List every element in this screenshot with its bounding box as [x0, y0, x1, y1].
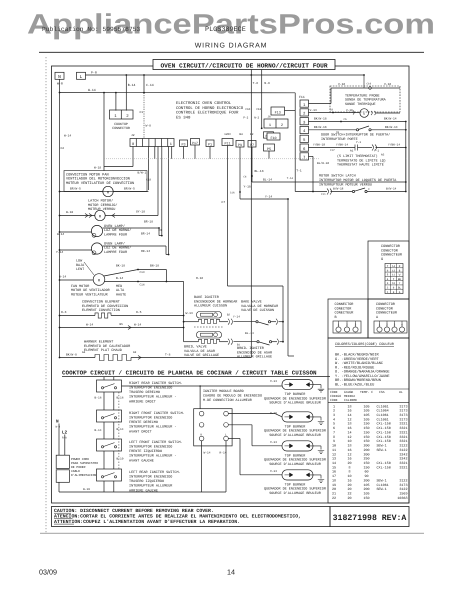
switch linkage dashed: [118, 392, 120, 469]
wire BL-18 / BL-14: [251, 147, 253, 182]
svg-text:P17: P17: [192, 141, 198, 145]
svg-text:200: 200: [363, 448, 369, 453]
svg-text:Y-1: Y-1: [356, 141, 361, 144]
svg-text:B5: B5: [120, 323, 124, 326]
svg-text:C11: C11: [321, 193, 326, 196]
svg-text:1: 1: [333, 404, 335, 409]
wire T-8: [250, 70, 252, 358]
terminal L: [77, 72, 86, 79]
svg-text:105: 105: [363, 404, 369, 409]
svg-text:3122: 3122: [399, 487, 407, 492]
svg-text:3122: 3122: [399, 444, 407, 449]
high limit thermostat row: [309, 147, 356, 149]
svg-text:C14: C14: [140, 283, 145, 286]
connector P1: [206, 140, 214, 147]
svg-text:CXL-150: CXL-150: [377, 461, 391, 466]
svg-text:14: 14: [347, 413, 351, 418]
svg-text:14: 14: [347, 430, 351, 435]
svg-text:C10: C10: [367, 83, 372, 86]
svg-text:BL-14: BL-14: [263, 179, 272, 182]
svg-text:A1: A1: [350, 150, 354, 153]
svg-text:1: 1: [269, 123, 271, 128]
module ground wires: [201, 441, 203, 492]
connector J2 strip: [130, 139, 174, 147]
svg-text:SEW-1: SEW-1: [377, 478, 387, 483]
right front igniter switch: [97, 410, 122, 422]
connector F11 pin 2: [300, 109, 309, 116]
svg-text:3: 3: [333, 413, 335, 418]
connector B pins: [333, 321, 361, 333]
svg-text:C18: C18: [146, 179, 151, 182]
svg-text:P-8: P-8: [91, 71, 97, 75]
svg-text:C7: C7: [221, 201, 225, 204]
svg-text:20: 20: [347, 496, 351, 501]
caution box: [52, 507, 331, 527]
convection element: [59, 315, 61, 317]
svg-text:10368: 10368: [397, 496, 407, 501]
svg-text:W-14: W-14: [57, 233, 64, 236]
svg-text:Y-14: Y-14: [56, 251, 63, 254]
svg-text:A4: A4: [82, 351, 86, 354]
connector F11 pin 3: [300, 118, 309, 125]
svg-text:150: 150: [363, 496, 369, 501]
svg-text:LATCH MOTOR/MOTOR CERROJO/MOTE: LATCH MOTOR/MOTOR CERROJO/MOTEUR VERROU: [88, 199, 117, 213]
svg-text:GY-18: GY-18: [136, 211, 145, 214]
svg-text:16: 16: [347, 457, 351, 462]
wire W-14 horizontal / EOC bottom: [60, 92, 296, 94]
right bus lower: [405, 148, 407, 192]
svg-text:C17: C17: [330, 149, 335, 152]
igniter module board box: [194, 409, 232, 446]
svg-text:W-8: W-8: [146, 125, 152, 128]
svg-text:V-14: V-14: [310, 109, 317, 112]
svg-text:3122: 3122: [399, 448, 407, 453]
motor switch latch wires: [309, 155, 314, 157]
svg-text:3321: 3321: [399, 435, 407, 440]
module input wire from burner feed: [199, 386, 201, 409]
broil igniter: [197, 332, 222, 339]
switch column wires: [103, 392, 105, 410]
svg-text:V-18: V-18: [338, 83, 345, 86]
svg-text:3321: 3321: [399, 422, 407, 427]
svg-text:PLGS389ECE: PLGS389ECE: [205, 26, 246, 34]
svg-text:200: 200: [363, 452, 369, 457]
svg-text:3321: 3321: [399, 439, 407, 444]
svg-text:B-10: B-10: [117, 458, 124, 461]
svg-text:12: 12: [347, 417, 351, 422]
svg-text:15: 15: [332, 465, 336, 470]
svg-text:150: 150: [363, 439, 369, 444]
svg-text:3321: 3321: [399, 465, 407, 470]
svg-text:Y/BK-14: Y/BK-14: [336, 142, 348, 146]
right bus BK/W-14: [405, 122, 407, 159]
svg-text:W-18: W-18: [94, 166, 101, 169]
svg-text:W-14: W-14: [204, 452, 211, 455]
connector A pins: [374, 321, 407, 333]
svg-text:t: t: [363, 112, 365, 117]
svg-text:J8: J8: [268, 116, 272, 119]
svg-text:3122: 3122: [399, 478, 407, 483]
svg-text:Publication No: 5995578753: Publication No: 5995578753: [42, 26, 140, 33]
svg-text:L: L: [80, 75, 83, 80]
svg-text:SEW-1: SEW-1: [377, 448, 387, 453]
wire color code panel: [328, 338, 409, 503]
svg-text:C9: C9: [330, 109, 334, 112]
svg-text:RD-14: RD-14: [141, 250, 150, 253]
svg-text:B/W-1: B/W-1: [138, 171, 147, 175]
connector G pin table: [385, 264, 403, 294]
svg-text:6: 6: [333, 426, 335, 431]
right feed vertical wire: [287, 199, 289, 356]
svg-text:V-18: V-18: [384, 83, 391, 86]
svg-text:3173: 3173: [399, 483, 407, 488]
convection fan box: [64, 171, 147, 192]
svg-text:120V: 120V: [224, 133, 231, 136]
top burner 1 spark electrode: [310, 385, 322, 389]
svg-text:150: 150: [363, 430, 369, 435]
svg-text:Y-18: Y-18: [244, 186, 251, 189]
bus right end drop: [405, 159, 407, 192]
wire V-18 probe top: [309, 103, 332, 105]
svg-text:105: 105: [363, 413, 369, 418]
svg-text:F11: F11: [299, 95, 305, 99]
connector P3: [180, 140, 188, 147]
connector F11 pin 6: [300, 144, 309, 151]
svg-text:150: 150: [363, 426, 369, 431]
svg-text:3321: 3321: [399, 430, 407, 435]
svg-text:3321: 3321: [399, 461, 407, 466]
connector F13: [271, 107, 285, 115]
svg-text:M: M: [107, 190, 109, 195]
burner 1 supply wire: [122, 385, 283, 387]
neutral bus wire W: [59, 79, 61, 357]
svg-text:COOKTOP CIRCUIT / CIRCUITO DE: COOKTOP CIRCUIT / CIRCUITO DE PLANCHA DE…: [62, 370, 317, 377]
svg-text:R-14: R-14: [220, 452, 227, 455]
svg-text:2: 2: [333, 409, 335, 414]
svg-text:OVEN CIRCUIT//CIRCUITO DE HORN: OVEN CIRCUIT//CIRCUITO DE HORNO//CIRCUIT…: [160, 62, 327, 69]
svg-text:3321: 3321: [399, 426, 407, 431]
svg-text:#-23: #-23: [270, 380, 277, 383]
svg-text:150: 150: [363, 461, 369, 466]
svg-text:CXL-150: CXL-150: [377, 426, 391, 431]
module output wires: [228, 413, 275, 415]
connector F11 pin 4: [300, 126, 309, 133]
svg-text:CXL-150: CXL-150: [377, 422, 391, 427]
wire C-14 to EOC: [143, 75, 145, 94]
svg-text:B-14: B-14: [116, 277, 123, 280]
svg-text:B4: B4: [239, 133, 243, 136]
svg-text:11: 11: [332, 448, 336, 453]
svg-text:7: 7: [333, 430, 335, 435]
svg-text:1: 1: [170, 142, 172, 147]
svg-text:3173: 3173: [399, 409, 407, 414]
svg-text:18: 18: [347, 404, 351, 409]
svg-text:C-14: C-14: [146, 83, 154, 87]
svg-text:CL1061: CL1061: [377, 413, 389, 418]
svg-text:W-14: W-14: [64, 135, 71, 138]
svg-text:C16: C16: [230, 192, 235, 195]
svg-text:18: 18: [347, 444, 351, 449]
cooktop ground bus: [58, 482, 60, 492]
svg-text:3242: 3242: [399, 452, 407, 457]
svg-text:8: 8: [348, 470, 350, 475]
connector B box: [328, 299, 368, 338]
svg-text:CODE: CODE: [330, 398, 338, 402]
svg-text:B-16: B-16: [95, 397, 102, 400]
bake igniter: [197, 312, 222, 319]
svg-text:20: 20: [347, 461, 351, 466]
svg-text:CL1061: CL1061: [377, 483, 389, 488]
svg-text:Y-14: Y-14: [233, 316, 240, 319]
svg-text:C13: C13: [140, 271, 145, 274]
header rule: [39, 51, 424, 53]
svg-text:BL-14: BL-14: [245, 332, 254, 335]
wire BR-14 up to EOC: [159, 235, 162, 237]
svg-text:W-14: W-14: [186, 312, 193, 315]
motor switch latch contacts: [295, 191, 327, 193]
part number box: [330, 507, 409, 527]
svg-text:CXL-150: CXL-150: [377, 465, 391, 470]
wire P5 drop: [268, 151, 270, 159]
svg-text:10: 10: [347, 474, 351, 479]
svg-text:250: 250: [363, 457, 369, 462]
svg-text:12: 12: [332, 452, 336, 457]
svg-text:C4: C4: [243, 176, 247, 179]
warmer element: [59, 357, 61, 359]
svg-text:N-8: N-8: [264, 82, 270, 85]
svg-text:13: 13: [332, 457, 336, 462]
connector F10: [267, 133, 280, 140]
connector A box: [368, 299, 409, 338]
svg-text:AppliancePartsPros.com: AppliancePartsPros.com: [27, 9, 435, 40]
svg-text:16: 16: [347, 409, 351, 414]
svg-text:B2: B2: [227, 313, 231, 316]
svg-text:10: 10: [332, 444, 336, 449]
svg-text:318271998 REV:A: 318271998 REV:A: [333, 514, 407, 523]
svg-text:C2: C2: [61, 147, 65, 150]
fan motor speed taps: [104, 270, 138, 277]
top burner 4 spark electrode: [310, 475, 322, 479]
right rear igniter switch: [97, 380, 122, 392]
svg-text:M: M: [98, 278, 100, 283]
svg-text:W-14: W-14: [86, 324, 93, 327]
svg-text:105: 105: [363, 409, 369, 414]
svg-text:18: 18: [332, 478, 336, 483]
cooktop connector plug: [110, 110, 134, 119]
top burner 2 spark electrode: [310, 417, 322, 421]
svg-text:P-2: P-2: [243, 117, 248, 120]
svg-text:C10: C10: [245, 108, 250, 111]
wire P-8 from L: [86, 74, 365, 76]
svg-text:14: 14: [332, 461, 336, 466]
svg-text:1569: 1569: [399, 492, 407, 497]
svg-text:A2: A2: [133, 351, 137, 354]
connector G box: [368, 241, 409, 299]
svg-text:10: 10: [347, 439, 351, 444]
connector P17: [191, 139, 200, 146]
wire V-14 probe bottom / probe sensor: [309, 112, 360, 114]
svg-text:UL: UL: [399, 390, 403, 394]
page bottom edge line: [40, 532, 424, 534]
svg-text:CL1061: CL1061: [377, 404, 389, 409]
terminal N: [55, 72, 64, 79]
wire BK/W-18 row: [309, 121, 406, 123]
horizontal bus wire below EOC: [104, 158, 319, 160]
igniter feed wire: [183, 282, 185, 342]
svg-text:BK/W-14: BK/W-14: [385, 125, 398, 129]
svg-text:200: 200: [363, 478, 369, 483]
svg-text:COOKTOPCONNECTOR: COOKTOPCONNECTOR: [112, 122, 130, 130]
svg-text:16: 16: [347, 426, 351, 431]
svg-text:3242: 3242: [399, 457, 407, 462]
diagram border frame: [52, 66, 410, 503]
svg-text:TEMP. C: TEMP. C: [360, 390, 373, 394]
svg-text:22: 22: [347, 492, 351, 497]
svg-text:BL/R-18: BL/R-18: [317, 161, 329, 165]
svg-text:M: M: [99, 214, 101, 219]
svg-text:BK/W-14: BK/W-14: [384, 117, 397, 121]
svg-text:18: 18: [347, 422, 351, 427]
svg-text:W-14: W-14: [134, 324, 141, 327]
svg-text:4: 4: [333, 417, 335, 422]
svg-text:CL1061: CL1061: [377, 417, 389, 422]
bake valve switch: [234, 321, 256, 323]
svg-text:B2: B2: [250, 133, 254, 136]
svg-text:T-1: T-1: [296, 170, 302, 173]
fan motor: [59, 279, 61, 281]
door switch row: [309, 129, 357, 131]
wire gauge table header: [328, 388, 409, 390]
svg-text:#-23: #-23: [270, 441, 277, 444]
wire N-8: [261, 70, 263, 129]
oven circuit title box: [153, 60, 335, 70]
top burner 3 spark electrode: [310, 446, 322, 450]
svg-text:105: 105: [363, 492, 369, 497]
svg-text:BR-14: BR-14: [141, 232, 150, 235]
svg-text:5: 5: [333, 422, 335, 427]
svg-text:150: 150: [363, 435, 369, 440]
svg-text:200: 200: [363, 444, 369, 449]
wire B-14 to cooktop connector: [125, 75, 127, 111]
svg-text:CXL-150: CXL-150: [377, 430, 391, 435]
svg-text:W-8: W-8: [56, 425, 61, 428]
svg-text:16: 16: [332, 470, 336, 475]
svg-text:22: 22: [332, 496, 336, 501]
svg-text:F13: F13: [275, 111, 281, 116]
svg-text:N: N: [56, 420, 59, 425]
svg-text:150: 150: [363, 465, 369, 470]
svg-text:105: 105: [363, 417, 369, 422]
svg-text:W-10: W-10: [83, 488, 90, 491]
svg-text:N-2: N-2: [254, 117, 259, 120]
svg-text:150: 150: [363, 422, 369, 427]
temperature probe dashed box: [330, 86, 400, 112]
svg-text:WIRING DIAGRAM: WIRING DIAGRAM: [195, 43, 268, 50]
svg-text:B/W-14: B/W-14: [386, 186, 397, 190]
svg-text:9: 9: [333, 439, 335, 444]
svg-text:#-20: #-20: [270, 412, 277, 415]
wire drop W-18: [103, 93, 105, 171]
P connector drop wires: [183, 147, 185, 159]
connector F11 pin 1: [300, 100, 309, 107]
svg-text:C1: C1: [140, 111, 144, 114]
svg-text:O-8: O-8: [61, 311, 67, 314]
svg-text:12: 12: [347, 435, 351, 440]
J2 pin wires down: [132, 147, 134, 167]
svg-text:8: 8: [132, 142, 134, 147]
power cord block 2: [56, 470, 69, 483]
svg-text:CALIBRE: CALIBRE: [344, 398, 357, 402]
svg-text:20: 20: [347, 483, 351, 488]
svg-text:B-14: B-14: [117, 428, 124, 431]
svg-text:B-14: B-14: [128, 83, 136, 87]
connector F11 pin 7: [300, 153, 309, 160]
wire F13 to EOC: [285, 110, 296, 112]
svg-text:3173: 3173: [399, 417, 407, 422]
svg-text:12: 12: [347, 452, 351, 457]
svg-text:3173: 3173: [399, 404, 407, 409]
svg-text:Y-14: Y-14: [265, 196, 272, 199]
connector P10: [264, 132, 274, 138]
svg-text:BR/W-5: BR/W-5: [124, 187, 135, 191]
connector P5: [264, 144, 275, 151]
svg-text:BK-18: BK-18: [116, 265, 125, 268]
svg-text:Y-1: Y-1: [374, 150, 379, 153]
svg-text:A3: A3: [381, 154, 385, 157]
svg-text:T-8: T-8: [253, 82, 259, 85]
svg-text:R-16: R-16: [196, 277, 203, 280]
svg-text:W-8: W-8: [57, 82, 63, 86]
svg-text:CXL-150: CXL-150: [377, 435, 391, 440]
svg-text:B-16: B-16: [117, 397, 124, 400]
svg-text:8: 8: [348, 465, 350, 470]
svg-text:2: 2: [281, 123, 283, 128]
svg-text:CSA: CSA: [379, 390, 385, 394]
svg-text:60: 60: [364, 470, 368, 475]
right bus from EOC: [294, 93, 296, 192]
svg-text:17: 17: [332, 474, 336, 479]
svg-text:F10: F10: [270, 136, 276, 141]
svg-text:BK/W-18: BK/W-18: [314, 117, 327, 121]
oven lamp 2: [59, 249, 61, 251]
svg-text:Y/BK-14: Y/BK-14: [388, 142, 400, 146]
svg-text:W-10: W-10: [66, 211, 73, 214]
dashed shield bake igniter: [194, 326, 224, 328]
svg-text:W-14: W-14: [59, 276, 66, 279]
wire W-14 mid row: [59, 327, 61, 329]
svg-text:20: 20: [332, 487, 336, 492]
svg-text:90: 90: [364, 474, 368, 479]
latch motor: [59, 215, 61, 217]
svg-text:CL1064: CL1064: [377, 409, 389, 414]
svg-text:19: 19: [332, 483, 336, 488]
svg-text:105: 105: [363, 483, 369, 488]
svg-text:8: 8: [333, 435, 335, 440]
svg-text:C12: C12: [256, 108, 261, 111]
convection fan motor: [59, 191, 61, 193]
left front igniter switch: [97, 439, 122, 451]
svg-text:T-8: T-8: [165, 354, 171, 357]
connector F11 pin 5: [300, 135, 309, 142]
wire C7 drop from P11: [227, 146, 229, 287]
power cord block 1: [56, 455, 69, 468]
wire Y-18 / Y-14: [239, 147, 241, 199]
svg-text:B-14: B-14: [95, 429, 102, 432]
svg-text:200: 200: [363, 487, 369, 492]
svg-text:3173: 3173: [399, 413, 407, 418]
svg-text:SEW-1: SEW-1: [377, 487, 387, 492]
svg-text:21: 21: [332, 492, 336, 497]
